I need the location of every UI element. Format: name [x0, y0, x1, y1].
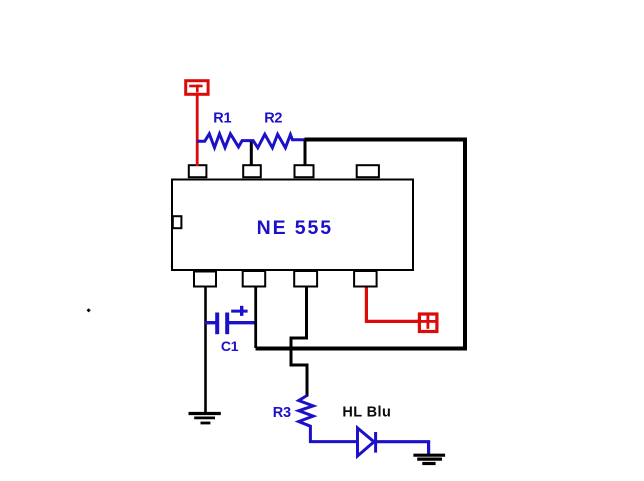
pin 4 bottom box F	[243, 271, 266, 287]
pin 1 top box D	[357, 165, 379, 177]
svg-text:HL Blu: HL Blu	[342, 405, 391, 421]
pin 7 top box A	[189, 165, 207, 177]
ground GND1	[189, 414, 221, 424]
power symbol P2 (+V right)	[419, 314, 437, 332]
capacitor C1	[205, 306, 256, 334]
resistor R1	[197, 134, 252, 148]
resistor R2	[252, 134, 305, 148]
wire junction R1/R2 to pin B	[250, 141, 253, 166]
svg-text:R1: R1	[213, 110, 231, 126]
wire thick bus: top, right side, bottom	[256, 140, 466, 349]
svg-text:R2: R2	[264, 110, 282, 126]
thick ledge above pin E	[194, 270, 217, 273]
wire red from P1 to pin A	[196, 95, 199, 167]
wire pin F down to bus	[254, 287, 257, 349]
svg-text:C1: C1	[221, 338, 239, 354]
wire pin E down to ground	[204, 287, 207, 414]
wire red pin H to P2	[366, 288, 418, 322]
svg-text:NE 555: NE 555	[257, 217, 333, 239]
svg-text:R3: R3	[273, 405, 291, 421]
pin 6 top box B	[243, 165, 261, 177]
pin 8 bottom box E	[194, 271, 216, 287]
wire pin C vertical	[304, 141, 307, 167]
pin 3 bottom box G	[294, 271, 317, 287]
pin 2 top box C	[295, 165, 314, 177]
wire pin G jog down to R3	[291, 287, 307, 397]
wire LED to ground GND2	[374, 442, 429, 455]
ground GND2	[413, 455, 445, 463]
IC U1 body NE555	[172, 180, 413, 271]
IC U1 pin-1 notch	[173, 216, 182, 228]
power symbol P1 (+V top left)	[186, 81, 208, 95]
LED D1 HL Blu	[358, 428, 376, 456]
resistor R3	[299, 396, 358, 442]
stray plus mark	[87, 309, 91, 313]
pin 5 bottom box H	[354, 271, 377, 287]
